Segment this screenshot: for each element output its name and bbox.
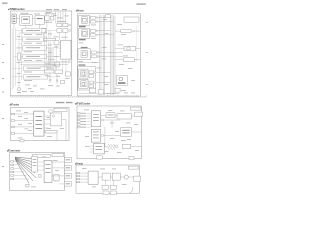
wire bus M3 — [110, 15, 112, 95]
wire V25 — [44, 32, 46, 71]
amplifier A1 — [23, 28, 47, 33]
pin P21 — [77, 115, 80, 117]
pin name labels — [81, 113, 86, 128]
filter F2 — [54, 41, 59, 45]
wire L5 — [44, 115, 50, 117]
amplifier A4 — [23, 54, 47, 59]
svg-text:■TUNER section: ■TUNER section — [8, 8, 25, 11]
IC201 big block right side — [61, 40, 71, 59]
dashed net line — [136, 26, 138, 62]
wire W10 — [45, 11, 47, 16]
wire L9 — [62, 119, 66, 121]
drive block Q902 — [112, 173, 120, 180]
wire bottom b1 — [79, 93, 119, 95]
relay block IC803 — [94, 143, 105, 154]
wire stub S4 — [90, 34, 91, 36]
jack J12 — [115, 88, 120, 92]
wire H13 — [55, 62, 57, 70]
IC201 pin stubs — [59, 43, 72, 55]
connector stubs left — [77, 113, 80, 128]
pin P4 — [12, 133, 15, 135]
relay RY1 — [65, 72, 70, 76]
pin P13 — [11, 171, 14, 173]
connector stubs left — [11, 161, 14, 180]
wire left l3 — [15, 47, 22, 49]
wire row a1 — [47, 30, 61, 32]
wire harness T1 box — [32, 157, 38, 173]
wire M14b — [87, 126, 92, 128]
pin P12 — [11, 168, 14, 170]
wire row a2 — [47, 38, 55, 40]
connector CN73 — [64, 174, 71, 178]
filter F1 — [44, 38, 56, 41]
pin P22 — [77, 118, 80, 120]
node N3 — [68, 61, 70, 63]
pin P31 — [77, 175, 80, 177]
power sub panel bottom right — [117, 75, 128, 85]
panel border — [11, 11, 72, 96]
wire loop arc — [130, 187, 133, 193]
audio out box with ellipse — [124, 46, 136, 50]
wire L6 — [44, 119, 50, 121]
LED driver IC702 — [54, 175, 59, 181]
wire L5c — [44, 127, 48, 129]
wire bus V2 — [13, 28, 15, 88]
wire M22 — [131, 146, 142, 148]
tiny labels corner — [21, 13, 41, 15]
pin P24 — [77, 124, 80, 126]
wire stub h3 — [14, 167, 22, 169]
bottom jack J41 — [111, 191, 117, 195]
svg-text:■MT (HOT) section: ■MT (HOT) section — [75, 103, 90, 106]
wire stub h6 — [14, 178, 29, 180]
node N19 — [133, 30, 135, 32]
filter FL8 — [89, 75, 94, 78]
wire bus M2b — [102, 15, 104, 95]
wire W30 — [18, 60, 20, 88]
tuner front-end block — [20, 15, 32, 25]
video amp box — [121, 30, 131, 33]
page number top-left — [2, 3, 8, 4]
wires middle-right — [101, 115, 142, 146]
board name box — [52, 153, 64, 156]
board name box — [131, 107, 142, 110]
wire stub S2 — [90, 21, 91, 23]
wire bus M5 — [113, 15, 115, 95]
node N17 — [94, 71, 96, 73]
IC801 inner label — [93, 114, 99, 121]
wire V24 — [56, 74, 58, 84]
filter FL5 — [92, 51, 97, 54]
node N2 — [69, 30, 71, 32]
resistor R701 — [39, 175, 42, 178]
wire L8 — [56, 133, 58, 141]
regulator block IC802 — [91, 129, 100, 142]
wire stub h5 — [14, 174, 27, 176]
top flat box remote sensor — [33, 154, 51, 157]
oscillator block X601 — [50, 113, 61, 126]
filter FL4 — [91, 33, 96, 36]
wire B16 — [120, 176, 124, 178]
wire M10 — [87, 112, 92, 114]
wire K4 — [59, 183, 64, 185]
jack J4 — [63, 29, 68, 32]
label strip U32 — [79, 39, 86, 40]
wire row a4 — [47, 56, 61, 58]
capacitor C701 — [26, 184, 29, 187]
antenna input block — [12, 14, 16, 23]
label strip U31 — [79, 26, 86, 27]
wire W11 — [51, 11, 53, 16]
node N32 — [115, 145, 118, 148]
wire W17 — [46, 21, 48, 29]
node N20 — [52, 115, 54, 117]
wire W41 — [136, 47, 141, 49]
transformer T801 flat box — [117, 114, 132, 120]
label strip IC50 — [118, 82, 126, 84]
bottom small boxes — [89, 88, 120, 94]
wire B11 — [80, 175, 89, 177]
bottom edge jack J31 — [129, 156, 134, 159]
node N12 — [96, 21, 98, 23]
left margin grid marks — [2, 44, 4, 167]
heater label — [108, 114, 114, 117]
wire M13 — [87, 121, 92, 123]
wire H8 — [21, 64, 69, 66]
signal processing row boxes with value labels — [23, 28, 48, 79]
transformer T1 tall narrow box — [17, 53, 20, 60]
wire L3 — [15, 126, 34, 128]
tiny labels top band — [45, 12, 69, 23]
node N1 — [69, 24, 71, 26]
bus wires vertical — [79, 15, 123, 95]
wire H9 — [40, 66, 61, 68]
noise filter box — [123, 144, 131, 149]
node N16 — [97, 56, 99, 58]
svg-text:■MAIN section: ■MAIN section — [76, 10, 84, 13]
wire row R7 — [96, 71, 110, 73]
wire K2 — [52, 167, 64, 169]
pin P30 — [77, 172, 80, 174]
right margin grid marks — [146, 22, 148, 85]
page header doc number (top right) — [136, 3, 145, 4]
wire L5b — [44, 123, 50, 125]
wire stub h2 — [14, 164, 20, 166]
pin P11 — [11, 164, 14, 166]
wire L4 — [15, 132, 34, 134]
wire col c3 — [55, 45, 57, 70]
filter FL10 — [89, 85, 94, 88]
extra fine wires right half of top-left panel — [19, 32, 66, 74]
tuner block U34 — [79, 69, 88, 78]
IC802 inner label — [93, 132, 99, 139]
small IF boxes beside tuners — [89, 16, 96, 88]
fuse F10 ellipse — [17, 88, 21, 91]
wire Q1C1 — [105, 180, 107, 185]
IC803 inner label — [96, 145, 103, 148]
pin P33 — [77, 181, 80, 183]
jack J2 — [63, 23, 68, 26]
wire M14 — [87, 123, 92, 125]
twisted pair zigzag — [108, 144, 115, 149]
wire corner w2 — [32, 18, 35, 20]
wire row R3 — [98, 30, 111, 32]
wire M15b — [115, 114, 117, 116]
wire corner w4 — [13, 23, 15, 28]
wire V23 — [49, 73, 51, 83]
capacitor bank C902 — [110, 185, 116, 189]
wire left l4 — [14, 56, 23, 58]
wire V26 — [45, 32, 47, 71]
antenna inner marks — [13, 16, 15, 17]
pin P25 — [77, 126, 80, 128]
board name box — [54, 108, 67, 111]
wire stub h4 — [14, 171, 24, 173]
wire M11 — [87, 115, 92, 117]
IF inner label — [37, 18, 43, 19]
wire K1 — [52, 161, 64, 163]
wire L10 — [65, 120, 67, 141]
pin P10 — [11, 161, 14, 163]
wire bus M2 — [100, 15, 102, 95]
tuner block U31 — [79, 15, 90, 25]
oscillator X1 — [106, 15, 111, 18]
connector CN74 — [64, 182, 71, 186]
filter FL2 — [91, 20, 96, 23]
IC601 internal label — [36, 116, 43, 117]
wire W19b — [43, 33, 45, 37]
jack J1 — [57, 23, 62, 26]
wire M21 — [104, 146, 108, 148]
RF unit box 1 — [45, 16, 49, 21]
node N14 — [96, 34, 98, 36]
RF unit box 2 — [50, 16, 54, 20]
wire row a5 — [48, 67, 55, 69]
bottom edge jack J30 — [97, 156, 103, 159]
panel border — [10, 152, 65, 190]
wire bus M1 — [98, 15, 100, 95]
top middle box — [106, 15, 139, 62]
wire L2 — [15, 120, 34, 122]
pin P20 — [77, 113, 80, 115]
pin P2 — [12, 120, 15, 122]
wire K3 — [52, 175, 64, 177]
wires middle-left panel — [44, 116, 66, 141]
AV switch box — [124, 17, 139, 22]
wire bus V4 — [21, 28, 23, 80]
pin P32 — [77, 178, 80, 180]
pin P1 — [12, 113, 15, 115]
wire W13 — [57, 11, 59, 23]
wire B12 — [80, 178, 89, 180]
vertical feed wires from panel top — [44, 11, 66, 40]
wires T1 to IC701 — [38, 162, 45, 170]
wire row R5 — [99, 51, 123, 53]
second column flat boxes — [44, 38, 71, 84]
pin P14 — [11, 175, 14, 177]
node N15 — [97, 52, 99, 54]
wire V20 — [48, 48, 50, 70]
T1 inner marks — [33, 158, 37, 161]
wire corner w3 — [43, 18, 46, 20]
wire B15 — [110, 176, 112, 178]
speaker SP1 — [127, 47, 131, 50]
node N13 — [96, 30, 98, 32]
capacitor bank C901 — [102, 185, 108, 189]
panel border — [11, 107, 69, 140]
connector stubs left — [12, 113, 15, 134]
wire row a3 — [47, 47, 61, 49]
wire H7 — [21, 61, 69, 63]
connector CN71 — [64, 158, 71, 163]
wire H15 — [19, 43, 24, 45]
filter FL6 — [92, 55, 97, 58]
amplifier A6 — [23, 75, 47, 80]
wire separator under U33 — [77, 62, 99, 64]
wire stub S3 — [90, 30, 91, 32]
wire H10 — [44, 71, 46, 73]
tiny text smudges above panel right of badge — [46, 8, 67, 11]
wire left l1 — [15, 30, 22, 32]
connector stubs left — [77, 172, 80, 183]
wire stub h1 — [14, 160, 18, 162]
filter FL7 — [89, 71, 94, 74]
wire B13 — [80, 181, 89, 183]
wire B14 — [98, 176, 102, 178]
wire corner w5 — [25, 25, 27, 28]
tuner block U32 — [79, 28, 90, 38]
wire L1 — [15, 113, 34, 115]
wire W45 — [115, 59, 123, 61]
buffer B2 — [55, 70, 63, 74]
filter FL9 — [89, 81, 94, 84]
wire col c1 — [48, 31, 50, 68]
wire M19 — [132, 131, 142, 133]
wire M16b — [111, 120, 113, 128]
wire H14 — [19, 32, 24, 34]
wire H11 — [62, 59, 64, 72]
wire left l5 — [12, 67, 23, 69]
wire W18 — [58, 32, 60, 40]
bridge rectifier box — [121, 128, 132, 137]
amplifier A5 — [23, 66, 47, 71]
jack J10 — [89, 88, 95, 93]
scattered tiny labels bottom panels — [16, 110, 139, 188]
wire left l6 — [12, 76, 23, 78]
wire row a6 — [48, 76, 55, 78]
wire W14 — [60, 11, 62, 23]
wire H6 — [48, 59, 55, 61]
switch SW1 — [55, 62, 60, 66]
tiny ref labels between boxes — [24, 34, 42, 81]
bridge inner marks — [122, 130, 130, 131]
jack J3 — [57, 29, 62, 32]
wire M20 — [104, 127, 106, 147]
wire row R2 — [98, 21, 114, 23]
vertical bus wires left side — [12, 28, 21, 90]
wire bus V1 — [11, 28, 13, 90]
wire row R6 — [99, 55, 123, 57]
keypad IC701 — [44, 160, 52, 182]
tuner block U33 — [78, 49, 91, 60]
wire bus M4 — [111, 15, 113, 95]
label above U33 — [81, 47, 88, 48]
trap box — [42, 29, 46, 33]
panel border — [77, 14, 140, 96]
IC803 stubs — [90, 146, 94, 152]
svg-text:■RC board section: ■RC board section — [7, 150, 21, 153]
wire col c2 — [49, 31, 51, 68]
wire W42 — [134, 59, 140, 61]
right connector CN80 — [135, 112, 143, 116]
audio out box 2 — [123, 58, 134, 62]
wire H12 — [65, 59, 67, 72]
wire stub S1 — [90, 17, 91, 19]
wire row R1 — [98, 17, 111, 19]
node N30 — [101, 119, 103, 121]
wire M15 — [101, 114, 107, 116]
wire L7 — [44, 131, 45, 133]
crystal Y1 ellipse — [49, 110, 53, 113]
regulator block IC801 — [91, 111, 100, 127]
wire W44 — [115, 47, 124, 49]
amplifier A2 — [23, 37, 47, 42]
wire H16 — [18, 33, 20, 53]
wire bus M6 — [114, 16, 116, 93]
right connector CN90 — [133, 176, 140, 181]
wire V22 — [52, 48, 54, 70]
connector cluster top right of panel — [42, 16, 68, 33]
wire corner w6 — [39, 24, 41, 28]
pin P15 — [11, 178, 14, 180]
drive block Q901 — [102, 173, 110, 180]
IF block — [35, 16, 44, 24]
wire row R4 — [98, 34, 114, 36]
amplifier A3 — [23, 46, 47, 51]
wire V21 — [50, 48, 52, 70]
microcontroller IC601 — [34, 111, 44, 136]
scattered tiny value labels top-right panel — [79, 19, 136, 94]
wire B17 — [128, 176, 133, 178]
scattered tiny value labels top-left panel — [17, 34, 70, 92]
wire M12 — [87, 118, 92, 120]
crossing wires center — [21, 48, 69, 84]
wire W12 — [55, 11, 57, 23]
capacitor C1 — [49, 80, 51, 81]
IC701 inner label — [46, 164, 51, 173]
bottom jack J40 — [103, 191, 109, 195]
wire bus M2c — [104, 15, 106, 95]
tuner block U35 — [79, 79, 88, 88]
wire corner w1 — [16, 18, 20, 20]
label under fuse — [17, 91, 21, 94]
wire M17 — [104, 135, 121, 137]
wire M16 — [104, 119, 121, 121]
node N31 — [101, 134, 103, 136]
row interconnect wires — [12, 31, 60, 77]
capacitor C2 — [56, 80, 58, 81]
panel border — [77, 106, 142, 159]
buffer B1 — [45, 70, 55, 73]
key matrix fan harness — [15, 157, 37, 183]
board name box — [128, 166, 138, 169]
wire B10 — [80, 172, 89, 174]
connector CN72 — [64, 166, 71, 170]
deflection IC901 — [88, 171, 98, 184]
panel border — [76, 165, 139, 193]
wire W40 — [134, 30, 140, 32]
right connectors — [64, 158, 71, 186]
